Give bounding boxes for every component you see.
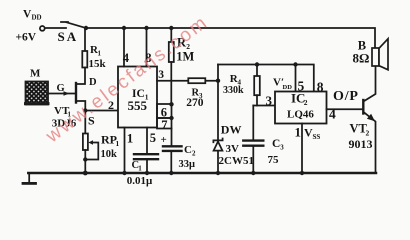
svg-text:3V: 3V	[226, 143, 240, 155]
svg-text:1: 1	[116, 139, 120, 148]
svg-text:9013: 9013	[349, 137, 373, 151]
svg-text:DW: DW	[221, 123, 242, 137]
svg-text:2: 2	[304, 98, 308, 107]
svg-text:1: 1	[127, 131, 134, 146]
svg-text:555: 555	[128, 98, 148, 113]
svg-text:DD: DD	[32, 14, 42, 22]
svg-text:C: C	[184, 144, 192, 156]
svg-text:+6V: +6V	[16, 32, 37, 44]
svg-text:330k: 330k	[223, 85, 244, 96]
svg-text:75: 75	[268, 154, 280, 166]
svg-text:SA: SA	[58, 29, 79, 44]
svg-text:2CW51: 2CW51	[219, 155, 254, 167]
svg-text:G: G	[57, 83, 65, 94]
svg-text:LQ46: LQ46	[287, 109, 314, 121]
svg-text:C: C	[272, 138, 280, 150]
svg-text:7: 7	[161, 118, 167, 132]
svg-text:O/P: O/P	[333, 89, 359, 104]
svg-text:10k: 10k	[101, 149, 118, 160]
svg-text:270: 270	[186, 97, 204, 109]
svg-text:3: 3	[280, 144, 284, 152]
svg-text:1: 1	[295, 125, 302, 140]
svg-text:SS: SS	[313, 133, 321, 141]
svg-text:3: 3	[266, 93, 273, 108]
svg-text:0.01μ: 0.01μ	[127, 175, 153, 187]
svg-text:8: 8	[317, 80, 324, 95]
svg-text:5: 5	[150, 131, 156, 145]
svg-text:4: 4	[329, 107, 336, 122]
svg-text:33μ: 33μ	[179, 159, 196, 170]
svg-text:3: 3	[158, 69, 164, 81]
svg-text:+: +	[161, 134, 167, 146]
svg-text:1: 1	[138, 165, 142, 173]
svg-text:M: M	[30, 68, 41, 80]
svg-text:2: 2	[192, 150, 196, 158]
svg-text:4: 4	[123, 51, 130, 65]
svg-text:15k: 15k	[89, 58, 107, 70]
svg-text:8Ω: 8Ω	[353, 51, 370, 66]
svg-text:D: D	[89, 77, 97, 88]
svg-text:1: 1	[98, 50, 102, 58]
